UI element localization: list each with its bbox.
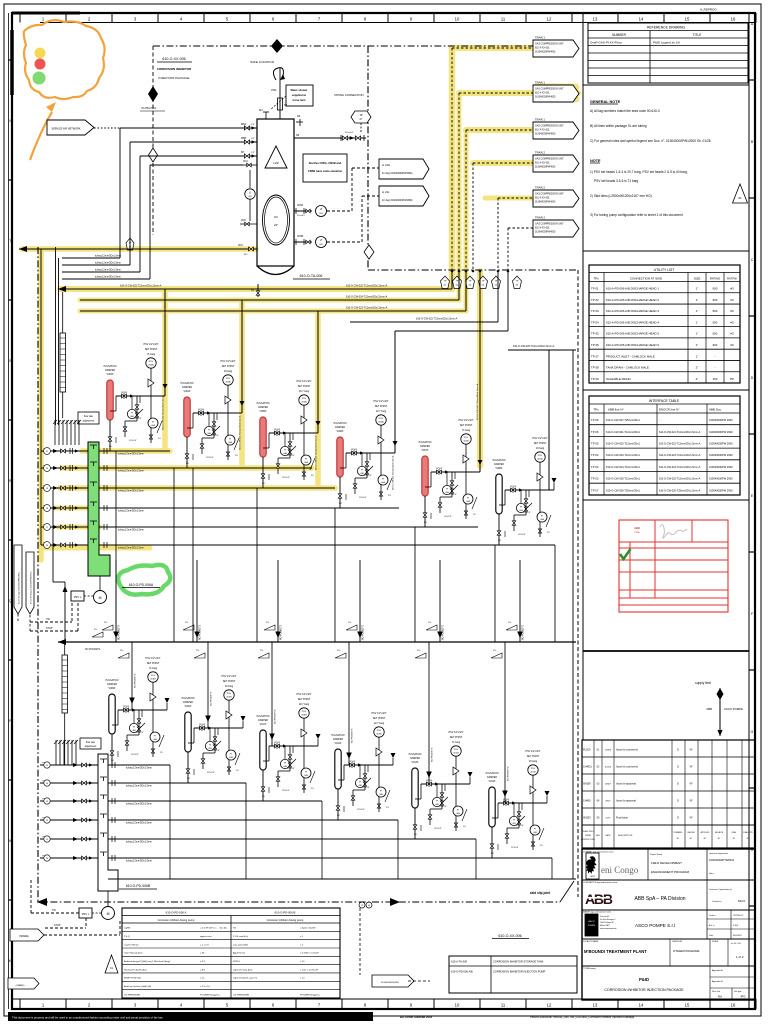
yellow patch row6 manifold A <box>45 546 150 551</box>
svg-text:10: 10 <box>455 1003 460 1008</box>
TP 23 circle on left <box>126 238 134 250</box>
svg-text:SERVICE AIR NETWORK: SERVICE AIR NETWORK <box>51 128 80 131</box>
svg-text:Liq/Wt: Liq/Wt <box>124 927 131 930</box>
service air network flag <box>47 120 94 135</box>
svg-text:PSV 1/2"x3/4": PSV 1/2"x3/4" <box>374 400 389 403</box>
svg-text:eni Congo: eni Congo <box>601 865 639 875</box>
svg-text:150: 150 <box>713 377 718 381</box>
svg-text:1": 1" <box>696 354 699 358</box>
svg-text:2%: 2% <box>473 514 476 516</box>
svg-text:2%: 2% <box>463 826 466 828</box>
cluster piping V010X <box>194 727 243 729</box>
svg-text:supplied as: supplied as <box>292 93 307 97</box>
svg-text:C) For general notes and symbo: C) For general notes and symbol legend s… <box>590 139 711 143</box>
svg-text:NO: NO <box>414 834 417 836</box>
svg-text:610-O-CW-022-T12mmODx1.5mm-A: 610-O-CW-022-T12mmODx1.5mm-A <box>239 415 242 450</box>
svg-text:STATE: STATE <box>585 834 592 837</box>
svg-text:610-O-CW-025-T12mmODx1.5mm-A: 610-O-CW-025-T12mmODx1.5mm-A <box>120 285 162 288</box>
svg-text:GAS COMPRESSION UNIT: GAS COMPRESSION UNIT <box>535 158 564 161</box>
svg-text:MTBF/ PmbF (N): MTBF/ PmbF (N) <box>124 978 141 980</box>
svg-text:1/2"x1/4": 1/2"x1/4" <box>511 847 519 849</box>
svg-text:POMPE: POMPE <box>588 925 596 927</box>
svg-text:TRAIN 1: TRAIN 1 <box>535 118 546 122</box>
suction drop B5 <box>428 642 430 784</box>
svg-text:CORROSION INHIBITOR: CORROSION INHIBITOR <box>157 67 192 71</box>
svg-text:DAMPER: DAMPER <box>335 426 345 429</box>
svg-text:PSV 1/2"x3/4": PSV 1/2"x3/4" <box>297 693 312 696</box>
tubing line row 1 <box>99 450 170 452</box>
svg-text:BA Foster Autocad 2004: BA Foster Autocad 2004 <box>400 1015 433 1019</box>
svg-text:2%: 2% <box>260 650 263 652</box>
svg-text:DAMPER: DAMPER <box>410 757 420 760</box>
svg-text:1": 1" <box>696 343 699 347</box>
svg-text:A) All tag numbers match the a: A) All tag numbers match the area code 0… <box>590 109 660 113</box>
svg-text:SALEABLE DRAIN: SALEABLE DRAIN <box>606 377 631 381</box>
revision triangle near pump table <box>105 955 118 973</box>
yellow: drain drop x41 <box>38 251 44 560</box>
svg-text:ABB SpA – PA Division: ABB SpA – PA Division <box>634 896 685 902</box>
dashed lines from flags to riser bundle <box>452 47 533 49</box>
TP flag circle 3 <box>465 276 474 289</box>
svg-text:P & Q: P & Q <box>124 936 130 938</box>
svg-text:610-O-CW-023-T12mmODx1: 610-O-CW-023-T12mmODx1 <box>606 453 640 457</box>
svg-text:UTILITY LIST: UTILITY LIST <box>654 268 675 272</box>
drops from bottom clusters to return line y879 <box>169 765 171 879</box>
svg-text:SET POINT: SET POINT <box>527 755 540 758</box>
traffic-light dots: green <box>33 72 46 85</box>
svg-text:1/2"x1/4": 1/2"x1/4" <box>439 806 447 808</box>
header line y300 <box>80 299 459 301</box>
black diamond on air line <box>148 86 158 102</box>
svg-text:22.7 barg: 22.7 barg <box>376 410 387 413</box>
svg-text:1": 1" <box>696 298 699 302</box>
svg-text:PSV: PSV <box>464 437 469 439</box>
svg-text:Contract n.: Contract n. <box>712 900 723 903</box>
svg-text:71 barg: 71 barg <box>452 741 461 744</box>
svg-text:DPV01: DPV01 <box>123 706 130 708</box>
svg-text:KW/LS: KW/LS <box>233 961 240 963</box>
svg-text:NO POCKETS: NO POCKETS <box>443 624 445 640</box>
svg-text:-: - <box>715 366 716 370</box>
svg-text:SET POINT: SET POINT <box>460 424 473 427</box>
vessel triangle symbol <box>265 146 287 168</box>
svg-text:PULSATION: PULSATION <box>409 753 422 756</box>
pump data table <box>122 908 340 998</box>
svg-text:OveP-GAS-PI-XX-PIxxx: OveP-GAS-PI-XX-PIxxx <box>590 41 623 45</box>
svg-text:DPV01: DPV01 <box>274 429 281 431</box>
svg-text:REFERENCE DRAWING: REFERENCE DRAWING <box>647 26 685 30</box>
svg-text:TP 05: TP 05 <box>591 332 599 336</box>
svg-text:40 barg: 40 barg <box>536 447 545 450</box>
pulsation damper V003X <box>107 380 113 420</box>
supply limit panel <box>583 650 749 652</box>
svg-text:1/2": 1/2" <box>251 124 255 126</box>
svg-text:DPV01: DPV01 <box>198 409 205 411</box>
pulsation damper V004X <box>184 397 190 437</box>
svg-text:PULSATION: PULSATION <box>182 697 195 700</box>
svg-text:NO POCKETS: NO POCKETS <box>281 624 283 640</box>
svg-text:006B: 006B <box>150 679 156 681</box>
svg-text:Appendix B: Appendix B <box>712 980 723 983</box>
svg-text:GAS COMPRESSION UNIT: GAS COMPRESSION UNIT <box>535 125 564 128</box>
svg-text:610-A-PD-006 A/B DISCHARGE HEA: 610-A-PD-006 A/B DISCHARGE HEAD 1 <box>606 287 659 291</box>
svg-text:tubing 12mmODx1.5mm: tubing 12mmODx1.5mm <box>118 453 144 456</box>
svg-text:P/OUR/Rm/mgg/xxx: P/OUR/Rm/mgg/xxx <box>200 994 221 996</box>
svg-text:DPV01: DPV01 <box>351 449 358 451</box>
orange arrow to cloud <box>30 112 52 160</box>
svg-text:CORROSION INHIBITOR INJECTION: CORROSION INHIBITOR INJECTION PUMP <box>493 970 546 974</box>
svg-text:M5B: M5B <box>241 137 246 140</box>
svg-text:1/2"x1/4": 1/2"x1/4" <box>523 512 531 514</box>
svg-text:TP 05: TP 05 <box>591 442 599 446</box>
svg-text:013040000PW 2900: 013040000PW 2900 <box>709 453 733 457</box>
traffic-light dots: red <box>35 59 46 70</box>
svg-text:13/6/5: 13/6/5 <box>605 750 612 752</box>
svg-text:IPG: IPG <box>741 995 746 999</box>
svg-text:NO POCKETS: NO POCKETS <box>352 728 354 743</box>
svg-text:610-O-CW-024-T12mmODx1.5mm-A: 610-O-CW-024-T12mmODx1.5mm-A <box>659 466 701 469</box>
svg-text:TP 02: TP 02 <box>591 477 599 481</box>
svg-text:1/2"x1/4": 1/2"x1/4" <box>364 475 372 477</box>
svg-text:013040000PW 2900: 013040000PW 2900 <box>709 418 733 422</box>
svg-text:PP: PP <box>730 377 734 381</box>
svg-text:PBA/013040000PTW0911_04CT00_CH: PBA/013040000PTW0911_04CT00_CH P&ID_Corr… <box>530 1015 635 1019</box>
tubing line B row 3 <box>108 800 322 802</box>
svg-text:DAMPER: DAMPER <box>333 738 343 741</box>
svg-text:PMA: PMA <box>635 531 640 534</box>
grey signature scribble <box>660 525 687 538</box>
svg-text:G: G <box>751 730 754 734</box>
cluster piping V012X <box>344 764 393 766</box>
svg-text:2%: 2% <box>196 650 199 652</box>
svg-text:ABB: ABB <box>634 526 640 530</box>
cluster piping V005X <box>269 432 318 434</box>
TP flag circle 2 <box>452 276 461 289</box>
svg-text:12: 12 <box>547 17 552 22</box>
pulsation damper V008X <box>496 474 502 514</box>
TP flag circle 1 <box>440 276 449 289</box>
svg-text:003A: 003A <box>378 421 384 424</box>
svg-text:FIELD DEVELOPMENT: FIELD DEVELOPMENT <box>651 861 682 865</box>
svg-text:Ambient design P(QtbF) avg 1 W: Ambient design P(QtbF) avg 1 Watt level … <box>124 960 170 963</box>
svg-text:PSV: PSV <box>302 711 307 713</box>
svg-text:15: 15 <box>685 17 690 22</box>
svg-text:013040000PW(306): 013040000PW(306) <box>381 982 399 984</box>
svg-text:610-X-XX-001: 610-X-XX-001 <box>535 93 550 95</box>
dense inlet hatch top <box>54 420 56 445</box>
svg-text:to LSH: to LSH <box>382 163 390 167</box>
header line y331 <box>395 330 508 332</box>
svg-text:TP 04: TP 04 <box>591 320 599 324</box>
svg-text:TRAIN 2: TRAIN 2 <box>535 151 546 155</box>
svg-text:1/2"x1/4": 1/2"x1/4" <box>449 494 457 496</box>
suction drop B2 <box>207 642 209 728</box>
cluster piping V007X <box>431 471 480 473</box>
svg-text:STOP: STOP <box>54 924 61 927</box>
boundary: bottom dash-dot y902 <box>37 901 560 903</box>
svg-text:-: - <box>715 354 716 358</box>
svg-text:SET POINT: SET POINT <box>298 385 311 388</box>
svg-text:1/2"x1/4": 1/2"x1/4" <box>207 772 215 774</box>
svg-text:PSV 1/2"x3/4": PSV 1/2"x3/4" <box>372 712 387 715</box>
svg-text:2%: 2% <box>337 650 340 652</box>
yellow patches left manifold <box>55 506 95 511</box>
svg-text:TRAIN 1: TRAIN 1 <box>535 81 546 85</box>
svg-text:tubing 12mmODx1.5mm: tubing 12mmODx1.5mm <box>118 470 144 473</box>
svg-text:610-O-CW-026-T12mmODx1.5mm-A: 610-O-CW-026-T12mmODx1.5mm-A <box>476 383 479 420</box>
svg-text:M4: M4 <box>259 109 263 112</box>
svg-text:FC=x0.5: FC=x0.5 <box>345 132 354 134</box>
svg-text:2%: 2% <box>235 455 238 457</box>
dashed control lines pump A <box>30 621 72 623</box>
pump B return header y879 <box>108 878 576 880</box>
svg-text:Issue for comments: Issue for comments <box>616 749 639 752</box>
svg-text:NO POCKETS: NO POCKETS <box>432 747 434 762</box>
manifold B (white) <box>98 754 118 891</box>
TP flag circle 5 <box>491 276 500 289</box>
svg-text:DPV01: DPV01 <box>510 486 517 488</box>
TP circles on skid line <box>359 902 365 908</box>
svg-text:001B: 001B <box>530 772 536 774</box>
svg-text:610-A-PD-006 A/B DISCHARGE HEA: 610-A-PD-006 A/B DISCHARGE HEAD 5 <box>606 332 659 336</box>
svg-text:= 4.6 Am / 2.5 barP: = 4.6 Am / 2.5 barP <box>300 952 319 955</box>
svg-text:V014X: V014X <box>489 781 496 783</box>
svg-text:NO: NO <box>491 853 494 855</box>
svg-text:610-A-PD-006 A/B DISCHARGE HEA: 610-A-PD-006 A/B DISCHARGE HEAD 4 <box>606 320 659 324</box>
svg-text:#3: #3 <box>730 343 734 347</box>
boundary: left vertical x38 <box>37 247 39 902</box>
right line N8 to piping connection <box>294 137 366 139</box>
svg-text:40 barg: 40 barg <box>225 685 234 688</box>
svg-text:NO POCKETS: NO POCKETS <box>275 709 277 724</box>
suction drop B3 <box>271 642 273 746</box>
svg-text:TRAIN 2: TRAIN 2 <box>535 186 546 190</box>
svg-text:GAS COMPRESSION UNIT: GAS COMPRESSION UNIT <box>535 193 564 196</box>
svg-text:IS4209: IS4209 <box>583 783 591 786</box>
svg-text:DAMPER: DAMPER <box>258 406 268 409</box>
nozzle M7 <box>240 155 257 157</box>
vessel 610-O-TA-006 shell <box>257 119 294 266</box>
svg-text:2": 2" <box>696 377 699 381</box>
staircase connect to vessel nozzles <box>120 127 240 129</box>
nozzles CN5A / CN5B note box <box>303 154 347 182</box>
traffic-light dots: yellow <box>35 48 46 59</box>
svg-text:SET POINT: SET POINT <box>147 662 160 665</box>
svg-text:TP 01: TP 01 <box>591 287 599 291</box>
svg-text:TP 03: TP 03 <box>591 465 599 469</box>
yellow: riser x318 <box>315 311 321 488</box>
svg-text:tubing 12mmODx1.5mm: tubing 12mmODx1.5mm <box>118 510 144 513</box>
svg-text:610-O-CW-023-T12mmODx1.5mm-A: 610-O-CW-023-T12mmODx1.5mm-A <box>315 435 318 470</box>
svg-text:22.7 barg: 22.7 barg <box>374 722 385 725</box>
svg-text:V012X: V012X <box>335 743 342 745</box>
svg-text:tubing 12mmODx1.5mm: tubing 12mmODx1.5mm <box>126 841 152 844</box>
boundary: horizontal y270 <box>368 269 578 271</box>
svg-text:610-O-XX-006: 610-O-XX-006 <box>498 934 521 938</box>
svg-text:2%: 2% <box>185 622 188 624</box>
svg-text:2%: 2% <box>417 650 420 652</box>
svg-text:NO: NO <box>339 503 342 505</box>
svg-text:610-X-XX-001: 610-X-XX-001 <box>535 228 550 230</box>
svg-text:Job n.: Job n. <box>709 873 715 875</box>
svg-text:610-O-CW-021-T12mmODx1: 610-O-CW-021-T12mmODx1 <box>606 430 640 434</box>
svg-text:ASCO: ASCO <box>588 920 594 923</box>
svg-text:SCALE: SCALE <box>712 940 719 943</box>
drain drop line x41 (yellow highlighted) <box>40 249 42 545</box>
manifold B inlet valve row 2 <box>40 782 98 784</box>
general notes panel divider <box>583 84 749 86</box>
svg-text:PULSATION: PULSATION <box>334 422 347 425</box>
svg-text:D: D <box>677 766 679 769</box>
svg-text:PULSATION: PULSATION <box>106 679 119 682</box>
svg-text:eni: eni <box>590 874 594 878</box>
svg-text:PULSATION: PULSATION <box>257 402 270 405</box>
svg-text:adjustment: adjustment <box>83 420 95 423</box>
svg-text:610-O-PD-006 A/B: 610-O-PD-006 A/B <box>451 970 473 974</box>
svg-text:DPV01: DPV01 <box>503 799 510 801</box>
svg-text:= 1 x 1.9: = 1 x 1.9 <box>200 944 209 946</box>
svg-text:INTERFACE TABLE: INTERFACE TABLE <box>649 399 680 403</box>
suction drop 1 with no-pockets <box>115 560 117 642</box>
tubing line row 3 <box>99 487 335 489</box>
svg-text:1/2"x1/4": 1/2"x1/4" <box>212 750 220 752</box>
svg-text:OIL PRESSURE: OIL PRESSURE <box>233 994 250 996</box>
svg-text:20.7 barg: 20.7 barg <box>299 703 310 706</box>
svg-text:NOTE: NOTE <box>590 159 601 163</box>
svg-text:Process Hill: Process Hill <box>600 915 610 918</box>
svg-text:0 403: 0 403 <box>733 925 739 927</box>
yellow: drain line y249 <box>22 246 256 252</box>
svg-text:CATEGORY: CATEGORY <box>672 940 683 943</box>
svg-text:V011X: V011X <box>260 724 267 726</box>
svg-text:DAMPER: DAMPER <box>107 683 117 686</box>
svg-text:610-O-CW-024-T12mmODx1: 610-O-CW-024-T12mmODx1 <box>606 465 640 469</box>
riser bundle verticals <box>451 48 453 271</box>
drain line left y249 <box>19 248 233 250</box>
svg-text:tubing 12mmODx1.5mm: tubing 12mmODx1.5mm <box>95 255 121 258</box>
svg-text:VF: VF <box>689 783 693 786</box>
header line y289 <box>58 288 452 290</box>
cluster piping V003X <box>116 395 165 397</box>
suction drop B4 <box>348 642 350 765</box>
svg-text:RATING: RATING <box>710 277 720 281</box>
right frame letter band <box>748 13 750 1009</box>
svg-text:1/2"x1/4": 1/2"x1/4" <box>129 440 137 442</box>
svg-text:610-O-PD-006 A: 610-O-PD-006 A <box>166 911 187 915</box>
svg-text:2%: 2% <box>388 495 391 497</box>
svg-text:NO POCKETS: NO POCKETS <box>135 673 137 688</box>
verticals from staircase rows down to inlet manifold <box>55 247 57 425</box>
svg-text:1/2"x1/4": 1/2"x1/4" <box>206 457 214 459</box>
tubing line B row 2 <box>108 782 246 784</box>
svg-text:600: 600 <box>713 309 718 313</box>
svg-text:ABB: ABB <box>585 891 613 907</box>
svg-text:PSV: PSV <box>227 693 232 695</box>
svg-text:V006X: V006X <box>337 431 344 433</box>
svg-text:610-A-PD-006 A/B DISCHARGE HEA: 610-A-PD-006 A/B DISCHARGE HEAD 2 <box>606 298 659 302</box>
svg-text:P: P <box>9 719 11 723</box>
top ruler band <box>40 22 755 24</box>
svg-text:PSV: PSV <box>226 378 231 380</box>
svg-text:1/2": 1/2" <box>251 138 255 140</box>
svg-text:610-X-XX-001: 610-X-XX-001 <box>535 198 550 200</box>
svg-text:610-A-TA-006: 610-A-TA-006 <box>451 960 468 964</box>
svg-text:= 2.5: = 2.5 <box>200 961 206 963</box>
nozzle CN6 <box>240 223 257 225</box>
svg-text:11: 11 <box>501 17 506 22</box>
svg-text:610-O-CW-026-T25mmODx1: 610-O-CW-026-T25mmODx1 <box>606 488 640 492</box>
svg-text:CH400: CH400 <box>583 800 591 803</box>
vessel drain CN3 to yellow line <box>233 248 257 250</box>
manifold A inlet valve row 3 <box>41 487 88 489</box>
manifold B inlet valve row 1 <box>40 764 98 766</box>
svg-text:SET POINT: SET POINT <box>298 698 311 701</box>
svg-text:skid slip joint: skid slip joint <box>530 891 551 895</box>
svg-text:1/2"x1/4": 1/2"x1/4" <box>362 787 370 789</box>
svg-text:NO POCKETS: NO POCKETS <box>363 624 365 640</box>
svg-text:for dwg 013040000PW4380): for dwg 013040000PW4380) <box>382 199 413 202</box>
svg-text:Water shower: Water shower <box>291 88 308 92</box>
svg-text:= 10m x 1.6 Pa/J/T: = 10m x 1.6 Pa/J/T <box>300 969 319 971</box>
svg-text:SET POINT: SET POINT <box>373 717 386 720</box>
svg-text:DAMPER: DAMPER <box>182 386 192 389</box>
svg-text:Issue for approval: Issue for approval <box>616 783 636 786</box>
svg-text:PSV 1/2"x3/4": PSV 1/2"x3/4" <box>221 360 236 363</box>
svg-text:2%: 2% <box>120 650 123 652</box>
svg-text:D: D <box>677 800 679 803</box>
svg-text:610-O-CW-022-T12mmODx1.5mm-A: 610-O-CW-022-T12mmODx1.5mm-A <box>659 443 701 446</box>
svg-text:CLASS PROJ: CLASS PROJ <box>582 830 594 833</box>
svg-text:GAS COMPRESSION UNIT: GAS COMPRESSION UNIT <box>535 223 564 226</box>
svg-text:610-O-CW-022-T12mmODx1.5mm-A: 610-O-CW-022-T12mmODx1.5mm-A <box>416 318 458 321</box>
svg-text:V013X: V013X <box>412 762 419 764</box>
svg-text:15: 15 <box>685 1003 690 1008</box>
svg-text:20.7 barg: 20.7 barg <box>299 390 310 393</box>
svg-text:CH4001: CH4001 <box>583 766 592 769</box>
footer black strip <box>8 1012 373 1021</box>
svg-text:Cyl/m P/J amp (l/m): Cyl/m P/J amp (l/m) <box>233 969 252 971</box>
yellow: main header y289 <box>60 286 452 292</box>
svg-text:610-X-XX-001: 610-X-XX-001 <box>535 130 550 132</box>
svg-text:2%: 2% <box>104 622 107 624</box>
svg-text:Contractor Organization (x): Contractor Organization (x) <box>709 888 732 891</box>
svg-text:013040000PW 2900: 013040000PW 2900 <box>709 477 733 481</box>
svg-text:ABB Doc.: ABB Doc. <box>709 408 722 412</box>
svg-text:71 barg: 71 barg <box>462 429 471 432</box>
PSV L box pump A <box>71 591 84 601</box>
svg-text:App/cfm (m): App/cfm (m) <box>233 952 245 955</box>
cluster piping V004X <box>193 412 242 414</box>
svg-text:CN6: CN6 <box>241 220 246 222</box>
svg-text:005B: 005B <box>226 697 232 699</box>
junction dots on boundary y271 <box>451 270 454 273</box>
svg-text:CN5B: CN5B <box>297 236 304 238</box>
svg-text:INJECTION PACKAGE: INJECTION PACKAGE <box>159 76 190 80</box>
pulsation damper V005X <box>260 417 266 457</box>
svg-text:16: 16 <box>731 1003 736 1008</box>
svg-text:T: T <box>9 239 11 243</box>
svg-text:RA: RA <box>718 995 722 999</box>
svg-text:TANK DRAIN - CAMLOCK MALE: TANK DRAIN - CAMLOCK MALE <box>606 366 649 370</box>
svg-text:TPs: TPs <box>593 277 599 281</box>
svg-text:#3: #3 <box>730 309 734 313</box>
svg-text:ENHANCEMENT PROGRAM: ENHANCEMENT PROGRAM <box>651 870 690 874</box>
flag: left frame drain <box>8 978 39 989</box>
svg-text:1) PSV set heads 1 & 4 is 20.7: 1) PSV set heads 1 & 4 is 20.7 barg, PSV… <box>590 170 688 174</box>
svg-text:NO: NO <box>186 463 189 465</box>
svg-text:2%: 2% <box>508 622 511 624</box>
svg-text:= 8/J: = 8/J <box>200 969 205 971</box>
